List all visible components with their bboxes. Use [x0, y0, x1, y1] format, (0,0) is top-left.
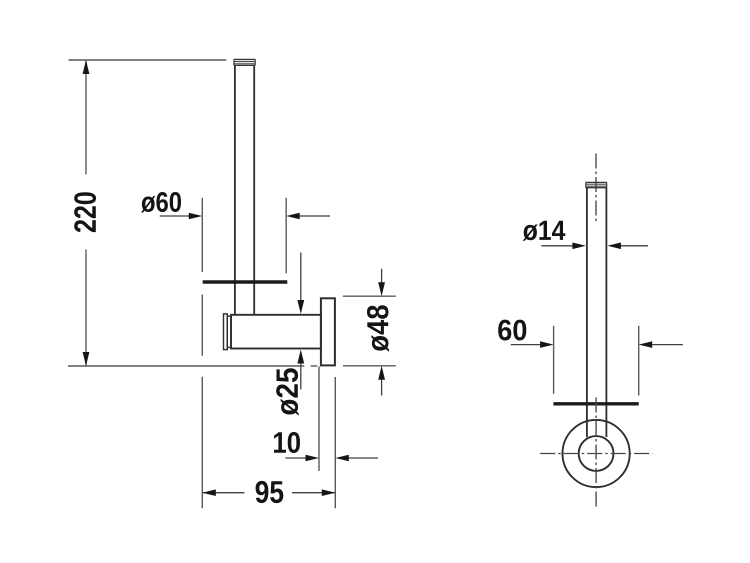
60 right arrow — [652, 344, 683, 346]
extension line left (o60 dim) — [201, 198, 203, 272]
60 left extension line — [553, 326, 555, 394]
o25 bottom arrow (points up to holder body) — [300, 361, 302, 389]
o60 right arrow — [299, 215, 331, 217]
label 220 (rotated) — [74, 192, 96, 232]
label 60 — [498, 320, 526, 341]
o14 right arrow — [620, 245, 648, 247]
rod left edge (side view) — [586, 188, 588, 438]
spare-roll rod right edge (front view) — [253, 65, 255, 314]
holder end ring — [227, 316, 231, 347]
60 left arrow — [511, 344, 541, 346]
o48 bottom arrow — [381, 378, 383, 396]
rod right edge (side view) — [605, 188, 607, 437]
vertical centerline through circle — [595, 398, 597, 508]
o48 top arrow — [381, 269, 383, 284]
95 dimension line right segment — [292, 492, 335, 494]
95 dimension line left segment — [203, 492, 244, 494]
label o14 — [523, 221, 566, 241]
plate-left extension line (10 dim) — [318, 367, 320, 472]
spare-roll rod left edge (front view) — [234, 65, 236, 314]
60 right extension line — [638, 326, 640, 396]
wall line dash — [311, 365, 318, 367]
paper roll reference thick line — [203, 280, 288, 283]
plate-right extension line (10 / 95 dim) — [334, 377, 336, 508]
wall reference thick line (side view) — [553, 402, 638, 405]
wall plate outer circle — [563, 420, 630, 487]
95 left arrowhead — [202, 489, 216, 496]
o14 left arrow — [541, 245, 573, 247]
o60 left arrow — [160, 215, 190, 217]
95 right arrowhead — [322, 489, 336, 496]
label 95 — [256, 481, 284, 503]
dimension line 220 upper segment — [85, 61, 87, 174]
arrowhead 220 bottom — [83, 352, 90, 366]
10 right arrow — [348, 457, 378, 459]
label o25 (rotated) — [276, 368, 298, 415]
holder body (front view) — [231, 315, 321, 349]
extension line left lower segments (o60 / 95 dim) — [201, 295, 203, 356]
arrowhead 220 top — [83, 60, 90, 74]
o48 top extension line — [343, 295, 396, 297]
dimension line 220 lower segment — [85, 250, 87, 366]
extension line right (o60 dim) — [285, 198, 287, 273]
label o48 (rotated) — [367, 305, 389, 351]
horizontal centerline through circle — [540, 453, 652, 455]
10 left arrow — [286, 457, 307, 459]
label 10 — [274, 432, 300, 453]
o25 top arrow (points down to holder body) — [300, 253, 302, 303]
wall plate (front view) — [321, 298, 335, 365]
holder end flange — [224, 314, 228, 350]
spare-roll rod cap (front view) — [234, 58, 256, 60]
wall line right segment / o48 bottom extension — [343, 365, 396, 367]
wall line — [68, 365, 304, 367]
extension line top (220 dim) — [69, 59, 227, 61]
centerline above rod — [595, 154, 597, 222]
rod bore inner circle — [579, 436, 614, 471]
label o60 — [141, 192, 181, 213]
rod cap (side view) — [586, 181, 607, 183]
